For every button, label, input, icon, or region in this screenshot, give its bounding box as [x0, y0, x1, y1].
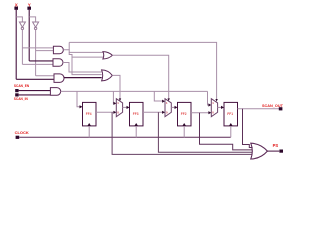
flip-flop FF4 box — [83, 102, 97, 126]
clock pin wedge FF4 — [87, 123, 91, 126]
svg-text:1: 1 — [117, 101, 119, 105]
flip-flop FF2 box — [178, 102, 192, 126]
wire OR1 output to mux2 select — [112, 55, 168, 98]
OR gate U6 (OR1) — [103, 52, 113, 59]
wire Y to AND2 input 1 — [29, 60, 53, 62]
svg-text:0: 0 — [117, 110, 119, 114]
arrowhead FF3 D — [127, 106, 130, 109]
AND gate U4 (AND2) — [53, 59, 63, 67]
wire scan rail drop to mux3 D1 — [208, 91, 209, 105]
AND gate U5 (AND3) — [54, 74, 64, 83]
arrowhead mux3 D0 — [208, 111, 211, 114]
arrowhead mux1 D1 — [113, 102, 116, 105]
wire scan rail drop to mux1 D1 — [112, 91, 115, 103]
arrowhead mux1 D0 — [113, 111, 116, 114]
mux M2 select arrow — [168, 98, 170, 101]
mux M3 select arrow — [215, 99, 217, 102]
inverter U1 (X) — [19, 22, 25, 27]
wire X to inverter branch — [16, 17, 22, 22]
input port SCAN_IN pin square — [15, 93, 18, 96]
AND gate U3 (AND1) — [53, 46, 63, 54]
OR gate U9 (OR4) 4-input — [251, 143, 268, 159]
svg-text:PS: PS — [273, 143, 279, 148]
wire FF2 Q to mux3 D0 — [191, 112, 209, 114]
wire mux2 out to FF2 D — [171, 106, 174, 108]
wire clock stub FF1 — [230, 126, 232, 137]
wire clock rail — [19, 136, 231, 138]
wire AND1 jog down to OR1 input 2 — [69, 52, 103, 57]
output port PS pin square — [279, 150, 283, 153]
mux M1 select arrow — [119, 98, 121, 101]
svg-text:FF1: FF1 — [227, 112, 233, 116]
wire scan rail drop to mux2 D1 — [154, 91, 162, 101]
clock pin wedge FF3 — [134, 123, 138, 126]
arrowhead FF1 D — [221, 106, 224, 109]
mux M1 — [116, 99, 122, 117]
wire FF1 Q tap to OR4 input 1 — [243, 109, 253, 148]
mux M2 — [165, 99, 171, 117]
inverter U2 (Y) — [33, 22, 39, 27]
svg-text:CLOCK: CLOCK — [15, 130, 29, 135]
input port SCAN_EN pin square — [15, 89, 18, 92]
wire AND3 output to OR2 input 3 — [64, 77, 102, 79]
wire invY to AND1 input 2 — [36, 50, 54, 52]
arrowhead FF2 D — [175, 106, 178, 109]
flip-flop FF3 box — [130, 102, 144, 126]
wire down to OR2 input 2 — [72, 57, 102, 75]
clock pin wedge FF2 — [182, 123, 186, 126]
arrowhead mux2 D0 — [162, 111, 165, 114]
arrowhead mux3 D1 — [208, 103, 211, 106]
wire clock stub FF2 — [183, 126, 185, 137]
wire OR4 output to PS — [267, 150, 279, 152]
wire FF3 Q tap to OR4 input 3 — [158, 112, 252, 152]
svg-text:0: 0 — [212, 110, 214, 114]
AND gate U8 (scan AND) — [50, 88, 60, 96]
wire inverted X vertical — [21, 30, 23, 65]
svg-text:SCAN_EN: SCAN_EN — [14, 84, 30, 88]
wire OR2 output to mux1 select — [112, 75, 120, 98]
wire clock stub FF4 — [88, 126, 90, 137]
wire FF3 Q to mux2 D0 — [143, 111, 163, 113]
OR gate U7 (OR2) 3-input — [102, 70, 113, 81]
wire Y to inverter branch — [29, 17, 35, 22]
wire X vertical — [15, 10, 17, 80]
mux M3 — [211, 99, 217, 117]
wire SCAN_EN to scan AND — [19, 90, 51, 92]
wire FF1 Q to SCAN_OUT — [238, 108, 280, 110]
svg-text:1: 1 — [166, 101, 168, 105]
wire AND1 output to OR1 input 1 with jog — [63, 50, 103, 53]
wire inverted Y vertical — [35, 30, 37, 76]
svg-text:FF3: FF3 — [133, 112, 139, 116]
input port Y pin square — [27, 7, 31, 10]
svg-text:FF2: FF2 — [181, 112, 187, 116]
wire FF4 Q to mux1 D0 — [96, 111, 114, 113]
svg-text:1: 1 — [212, 101, 214, 105]
svg-text:0: 0 — [166, 110, 168, 114]
svg-text:FF4: FF4 — [86, 112, 92, 116]
wire mux3 out to FF1 D — [218, 106, 222, 108]
wire FF2 Q tap to OR4 input 2 — [200, 113, 253, 150]
wire AND1 output up to top feedback — [68, 42, 70, 49]
svg-text:SCAN_IN: SCAN_IN — [14, 97, 29, 101]
wire AND2 output to OR2 input 1 — [63, 63, 102, 73]
wire SCAN_IN to scan AND — [19, 94, 51, 96]
wire invX to AND2 input 2 — [22, 63, 53, 65]
wire Y vertical — [28, 10, 30, 61]
flip-flop FF1 box — [224, 102, 238, 126]
input port CLOCK pin square — [16, 136, 20, 139]
wire scan rail — [61, 90, 208, 92]
wire FF4 Q tap to OR4 input 4 — [112, 112, 252, 154]
input port X pin square — [14, 7, 18, 10]
output port SCAN_OUT pin square — [279, 107, 283, 110]
clock pin wedge FF1 — [229, 123, 233, 126]
wire mux1 out to FF3 D — [123, 106, 127, 108]
wire top feedback long — [69, 42, 216, 99]
wire clock stub FF3 — [135, 126, 137, 137]
wire invY to AND3 input 1 — [36, 75, 54, 77]
wire scan rail drop to FF1 D input — [77, 91, 80, 106]
wire X to AND3 input 2 — [16, 78, 54, 80]
arrowhead mux2 D1 — [162, 100, 165, 103]
wire invX to AND1 input 1 — [22, 47, 53, 49]
arrowhead FF1 D — [80, 105, 83, 108]
